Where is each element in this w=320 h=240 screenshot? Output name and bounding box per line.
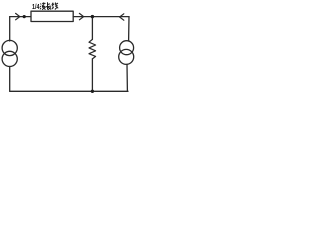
signal source G1 (left, two overlapping circles)	[2, 40, 17, 55]
wire resistor branch upper	[91, 17, 93, 40]
wire top-left horizontal	[10, 16, 31, 18]
junction dot top (resistor tap)	[91, 15, 94, 18]
resistor R (zigzag)	[89, 39, 96, 59]
junction dot bottom	[91, 90, 94, 93]
quarter-wave line box	[31, 11, 73, 21]
wire right vertical	[128, 17, 130, 41]
wire bottom horizontal	[10, 90, 128, 92]
wire top-middle horizontal	[73, 16, 129, 18]
svg-text:1/4: 1/4	[32, 2, 40, 11]
load G2 (right, two overlapping circles)	[120, 41, 134, 55]
wire left vertical	[9, 17, 11, 41]
arrow right (pointing left)	[120, 14, 124, 20]
arrow after box (pointing right)	[79, 13, 83, 19]
glyph 波	[40, 2, 46, 9]
glyph 长	[46, 2, 51, 9]
wire right lower vertical	[126, 64, 128, 91]
glyph 线	[52, 3, 58, 10]
arrow left (pointing right)	[16, 13, 20, 19]
wire resistor branch lower	[91, 59, 93, 91]
junction dot on left wire	[23, 15, 26, 18]
wire left lower vertical	[9, 67, 11, 92]
label 1/4波长线	[32, 2, 40, 11]
